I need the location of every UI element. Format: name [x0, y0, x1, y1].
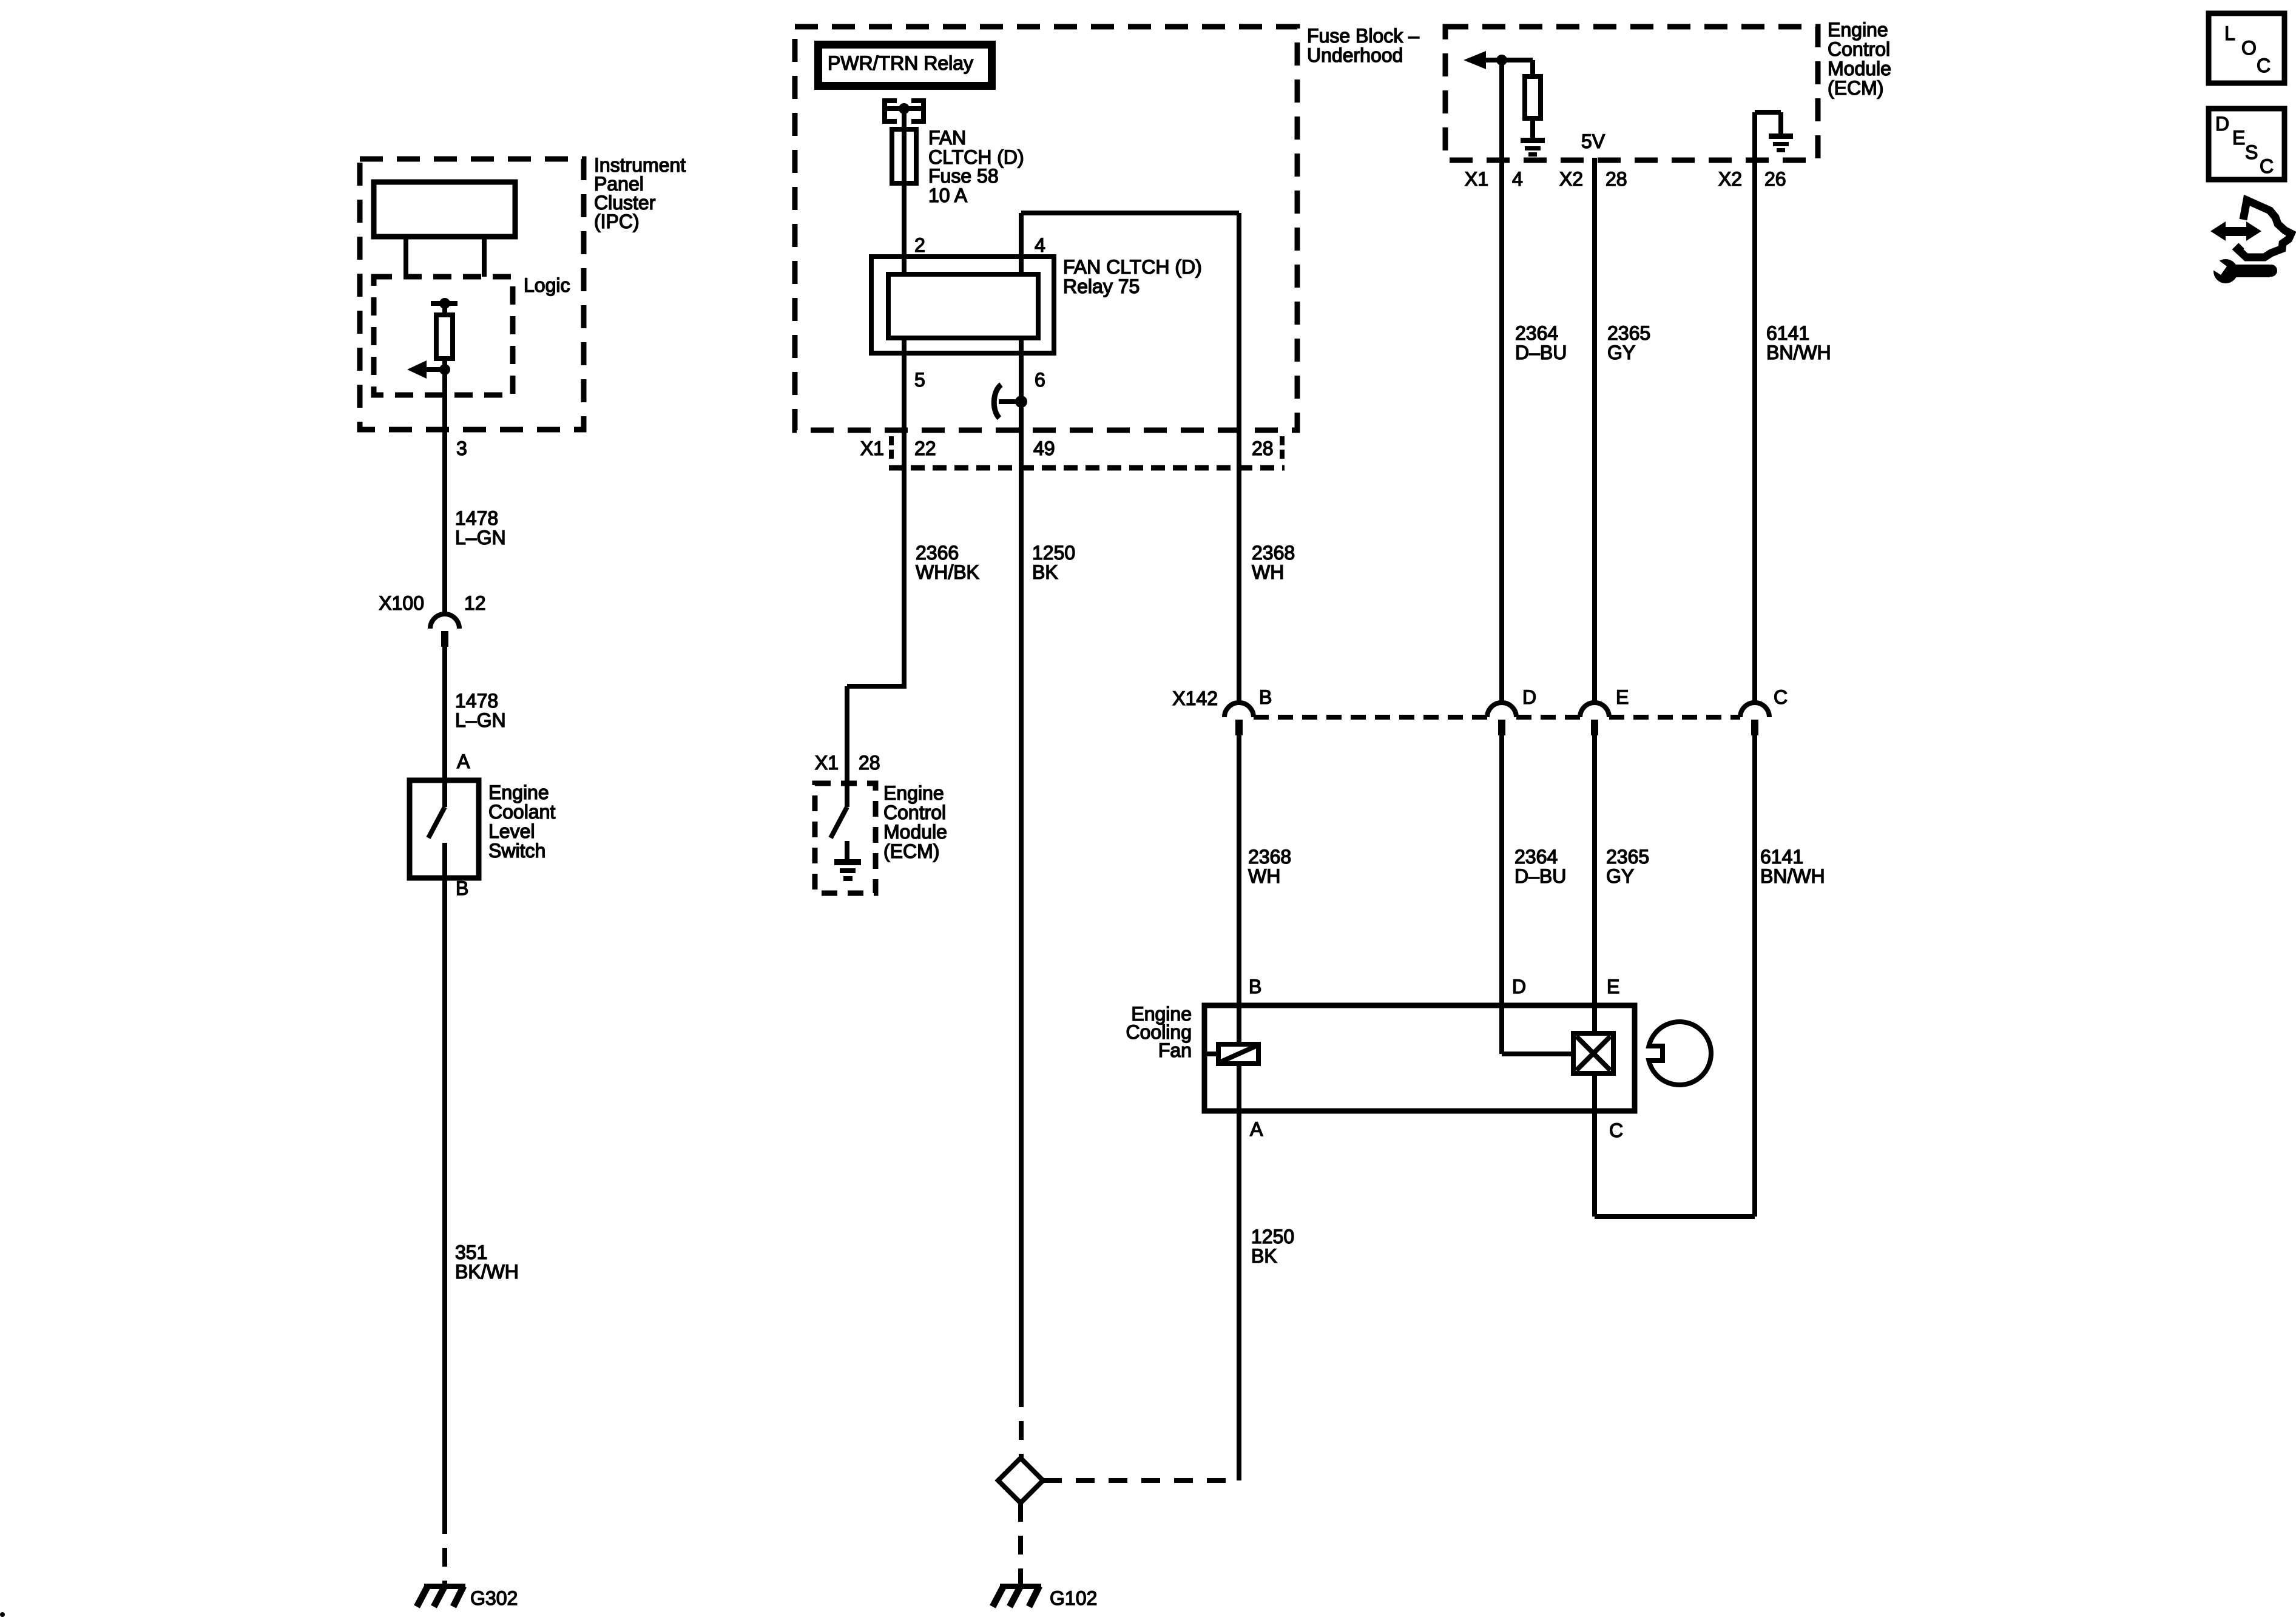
svg-text:B: B: [1249, 976, 1261, 998]
svg-text:2368: 2368: [1252, 542, 1295, 564]
svg-text:FAN CLTCH (D): FAN CLTCH (D): [1063, 256, 1202, 278]
svg-text:2365: 2365: [1606, 846, 1649, 868]
svg-text:C: C: [2260, 155, 2274, 177]
svg-text:(IPC): (IPC): [594, 211, 640, 232]
svg-text:X142: X142: [1172, 687, 1218, 709]
svg-text:PWR/TRN Relay: PWR/TRN Relay: [828, 52, 973, 74]
svg-text:GY: GY: [1607, 342, 1635, 363]
svg-text:Control: Control: [1828, 38, 1890, 60]
svg-text:28: 28: [859, 752, 880, 774]
svg-text:2366: 2366: [916, 542, 959, 564]
svg-text:6: 6: [1035, 369, 1045, 391]
svg-text:10 A: 10 A: [928, 184, 968, 206]
svg-text:WH: WH: [1248, 865, 1280, 887]
svg-text:28: 28: [1252, 437, 1274, 459]
svg-text:WH: WH: [1252, 561, 1284, 583]
svg-text:Engine: Engine: [883, 782, 944, 804]
svg-text:X2: X2: [1559, 168, 1583, 190]
svg-text:1250: 1250: [1032, 542, 1075, 564]
svg-text:L: L: [2224, 22, 2235, 44]
svg-text:28: 28: [1606, 168, 1627, 190]
svg-text:A: A: [1250, 1118, 1263, 1140]
svg-text:1478: 1478: [455, 690, 498, 712]
svg-text:BK: BK: [1032, 561, 1058, 583]
svg-text:1478: 1478: [455, 507, 498, 529]
svg-text:Fuse Block –: Fuse Block –: [1307, 25, 1419, 47]
svg-text:2364: 2364: [1514, 846, 1558, 868]
svg-text:C: C: [2257, 55, 2271, 76]
svg-text:4: 4: [1512, 168, 1523, 190]
svg-text:BK/WH: BK/WH: [455, 1261, 519, 1283]
svg-text:BK: BK: [1251, 1245, 1277, 1267]
svg-text:G102: G102: [1050, 1587, 1097, 1609]
svg-text:3: 3: [456, 437, 467, 459]
svg-text:Level: Level: [488, 820, 535, 842]
svg-text:E: E: [1607, 976, 1619, 998]
svg-text:A: A: [457, 751, 470, 772]
svg-text:2364: 2364: [1515, 322, 1558, 344]
svg-text:Fan: Fan: [1158, 1039, 1192, 1061]
svg-text:12: 12: [464, 592, 486, 614]
svg-text:X1: X1: [860, 437, 884, 459]
svg-text:L–GN: L–GN: [455, 527, 506, 549]
svg-text:Fuse 58: Fuse 58: [928, 165, 999, 187]
svg-text:49: 49: [1033, 437, 1055, 459]
svg-text:S: S: [2245, 141, 2258, 163]
svg-text:B: B: [1259, 686, 1272, 708]
svg-text:Relay 75: Relay 75: [1063, 275, 1140, 297]
svg-text:BN/WH: BN/WH: [1760, 865, 1825, 887]
svg-text:(ECM): (ECM): [883, 840, 939, 862]
svg-text:Engine: Engine: [1828, 19, 1888, 41]
svg-text:26: 26: [1764, 168, 1786, 190]
svg-text:G302: G302: [470, 1587, 518, 1609]
svg-text:E: E: [1616, 686, 1629, 708]
svg-text:X2: X2: [1718, 168, 1742, 190]
svg-text:FAN: FAN: [928, 127, 966, 149]
svg-text:Switch: Switch: [488, 840, 545, 862]
svg-text:Coolant: Coolant: [488, 801, 555, 823]
svg-text:6141: 6141: [1760, 846, 1803, 868]
svg-text:351: 351: [455, 1241, 487, 1263]
svg-text:Logic: Logic: [524, 274, 570, 296]
svg-text:B: B: [456, 877, 468, 899]
svg-text:D–BU: D–BU: [1514, 865, 1566, 887]
svg-text:5: 5: [914, 369, 925, 391]
svg-text:4: 4: [1035, 234, 1045, 256]
svg-text:2365: 2365: [1607, 322, 1650, 344]
svg-text:C: C: [1774, 686, 1788, 708]
svg-text:GY: GY: [1606, 865, 1634, 887]
svg-text:E: E: [2232, 127, 2245, 149]
svg-text:Control: Control: [883, 802, 946, 823]
svg-text:Module: Module: [883, 821, 947, 843]
svg-text:Engine: Engine: [488, 781, 549, 803]
svg-text:2368: 2368: [1248, 846, 1291, 868]
svg-text:1250: 1250: [1251, 1226, 1294, 1247]
svg-text:D–BU: D–BU: [1515, 342, 1567, 363]
svg-text:2: 2: [914, 234, 925, 256]
svg-text:X1: X1: [1465, 168, 1488, 190]
svg-text:D: D: [2215, 113, 2229, 135]
svg-text:BN/WH: BN/WH: [1766, 342, 1831, 363]
svg-text:D: D: [1522, 686, 1536, 708]
svg-text:5V: 5V: [1581, 130, 1606, 152]
svg-text:O: O: [2241, 37, 2257, 59]
svg-text:X1: X1: [815, 752, 839, 774]
svg-text:WH/BK: WH/BK: [916, 561, 979, 583]
svg-text:(ECM): (ECM): [1828, 77, 1883, 99]
svg-text:X100: X100: [379, 592, 424, 614]
svg-text:C: C: [1609, 1119, 1623, 1141]
svg-text:D: D: [1512, 976, 1526, 998]
svg-text:L–GN: L–GN: [455, 709, 506, 731]
svg-text:Underhood: Underhood: [1307, 44, 1403, 66]
svg-text:6141: 6141: [1766, 322, 1809, 344]
svg-text:Module: Module: [1828, 58, 1891, 79]
svg-text:22: 22: [914, 437, 936, 459]
